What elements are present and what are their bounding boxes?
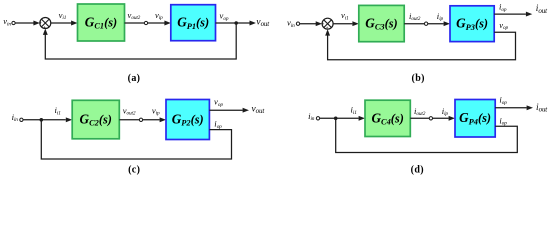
svg-text:+: +	[322, 22, 325, 27]
svg-text:(a): (a)	[128, 73, 141, 84]
svg-text:(c): (c)	[128, 165, 140, 176]
svg-text:+: +	[39, 22, 42, 27]
svg-text:(b): (b)	[412, 73, 425, 84]
svg-text:(d): (d)	[411, 165, 424, 176]
